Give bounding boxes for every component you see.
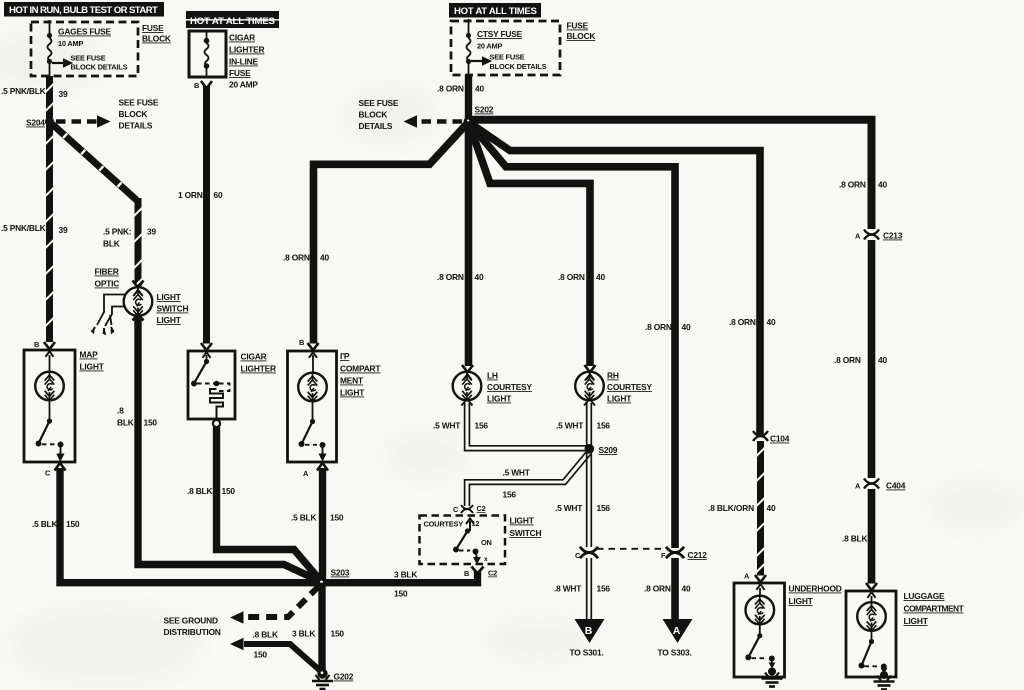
pin B map light xyxy=(34,340,55,372)
svg-text:TO S301.: TO S301. xyxy=(570,648,604,658)
wire S202 to RH courtesy light xyxy=(469,122,591,366)
fuse CTSY FUSE 20 AMP xyxy=(466,19,471,75)
svg-text:.8 ORN: .8 ORN xyxy=(729,317,756,327)
see fuse block details arrow (inside gages box) xyxy=(52,54,128,72)
wire .5 PNK/BLK diagonal S204 to light switch light xyxy=(52,124,137,200)
pin C map light xyxy=(45,454,66,478)
label .8 ORN 40 (luggage wire lower) xyxy=(834,355,887,365)
label .5 BLK 150 (I/P) xyxy=(291,513,344,523)
wire .5 BLK 150 I/P light to S203 xyxy=(319,468,326,580)
banner HOT AT ALL TIMES (left) xyxy=(178,11,286,28)
wire S202 to LH courtesy light xyxy=(465,122,473,367)
svg-text:B: B xyxy=(585,625,593,637)
svg-text:COURTESY: COURTESY xyxy=(487,382,533,392)
svg-text:CIGAR: CIGAR xyxy=(229,33,255,43)
label .8 WHT 156 xyxy=(554,584,610,594)
svg-text:CIGAR: CIGAR xyxy=(241,352,267,362)
I/P compartment light box xyxy=(288,351,337,462)
label UNDERHOOD LIGHT xyxy=(789,584,842,607)
svg-text:150: 150 xyxy=(331,629,345,639)
svg-text:.5 BLK: .5 BLK xyxy=(291,513,316,523)
svg-text:156: 156 xyxy=(597,503,611,513)
svg-text:40: 40 xyxy=(596,272,605,282)
svg-text:20 AMP: 20 AMP xyxy=(229,80,258,90)
label .8 ORN 40 (below F) xyxy=(644,584,691,594)
svg-text:40: 40 xyxy=(475,84,484,94)
svg-text:.5 PNK/BLK: .5 PNK/BLK xyxy=(1,223,46,233)
wire S202 to I/P compartment light xyxy=(314,122,469,344)
label CTSY FUSE 20 AMP xyxy=(477,29,523,51)
label .8 BLK 150 (cigar) xyxy=(187,486,235,496)
switch underhood light xyxy=(745,625,775,662)
svg-text:12: 12 xyxy=(472,519,480,528)
dashed arrow see fuse block details (left from S202) xyxy=(359,98,463,131)
svg-text:C: C xyxy=(45,469,51,478)
label .8 ORN 40 (luggage wire upper) xyxy=(839,180,887,190)
svg-text:LH: LH xyxy=(487,371,498,381)
lamp luggage light xyxy=(857,602,886,631)
label .5 WHT 156 (LH) xyxy=(433,421,488,431)
pin B I/P light xyxy=(299,338,319,373)
wire .8 WHT connector C to triangle B (white double line) xyxy=(587,558,592,620)
wire 1 ORN 60 down to cigar lighter xyxy=(203,86,210,344)
svg-text:IN-LINE: IN-LINE xyxy=(229,57,258,67)
svg-text:3 BLK: 3 BLK xyxy=(292,629,315,639)
svg-text:C2: C2 xyxy=(488,569,497,578)
svg-text:SEE FUSE: SEE FUSE xyxy=(490,53,525,62)
svg-text:.8 ORN: .8 ORN xyxy=(834,355,861,365)
svg-text:MAP: MAP xyxy=(80,350,99,360)
label .8 ORN 40 (underhood wire) xyxy=(729,317,776,327)
svg-text:.8 BLK/ORN: .8 BLK/ORN xyxy=(708,503,754,513)
wire .5 WHT LH courtesy to S209 (white double line) xyxy=(465,403,588,451)
svg-text:FUSE: FUSE xyxy=(567,21,589,31)
wire .8 BLK 150 from light switch light to S203 xyxy=(138,316,319,581)
svg-text:LIGHT: LIGHT xyxy=(80,362,105,372)
svg-text:COURTESY: COURTESY xyxy=(607,382,653,392)
dashed arrow see fuse block details xyxy=(56,98,159,131)
label .5 WHT 156 (down) xyxy=(555,503,610,513)
svg-text:FUSE: FUSE xyxy=(229,68,251,78)
label CIGAR LIGHTER xyxy=(241,352,277,374)
label 1 ORN 60 xyxy=(178,190,223,200)
svg-text:B: B xyxy=(194,81,199,90)
banner HOT IN RUN, BULB TEST OR START xyxy=(4,2,164,17)
wire .8 ORN 40 fuse to S202 xyxy=(465,75,472,121)
wire S202 to luggage compartment (right top) xyxy=(470,120,872,229)
svg-text:LIGHT: LIGHT xyxy=(607,394,632,404)
svg-text:156: 156 xyxy=(597,421,611,431)
svg-text:39: 39 xyxy=(59,89,68,99)
label 3 BLK 150 (vertical) xyxy=(292,629,344,639)
wire 3 BLK 150 S203 to G202 xyxy=(318,583,325,672)
svg-text:40: 40 xyxy=(320,253,329,263)
svg-text:A: A xyxy=(303,469,309,478)
svg-text:.8 ORN: .8 ORN xyxy=(558,272,585,282)
svg-text:.8 BLK: .8 BLK xyxy=(253,630,278,640)
splice S209 xyxy=(585,444,618,455)
switch map light xyxy=(36,401,65,462)
svg-text:BLOCK DETAILS: BLOCK DETAILS xyxy=(71,63,128,72)
label .8 ORN 40 (LH wire) xyxy=(437,272,484,282)
svg-text:S202: S202 xyxy=(475,105,494,115)
switch I/P light xyxy=(299,402,327,462)
ground at luggage light xyxy=(874,667,895,690)
svg-text:3 BLK: 3 BLK xyxy=(394,570,417,580)
svg-text:.8 BLK: .8 BLK xyxy=(187,486,212,496)
label LIGHT SWITCH xyxy=(510,516,542,539)
svg-text:COMPARTMENT: COMPARTMENT xyxy=(904,604,965,614)
svg-text:SEE GROUND: SEE GROUND xyxy=(164,616,218,626)
wire connector F to triangle A xyxy=(671,558,679,620)
svg-text:.8: .8 xyxy=(117,406,124,416)
label .8 ORN 40 (I/P wire) xyxy=(283,253,329,263)
svg-text:LUGGAGE: LUGGAGE xyxy=(904,591,946,601)
label FUSE BLOCK xyxy=(142,23,171,44)
svg-text:HOT AT ALL TIMES: HOT AT ALL TIMES xyxy=(454,6,538,17)
fuse element in-line xyxy=(204,31,210,77)
svg-text:C: C xyxy=(575,551,581,560)
label .8 ORN 40 (top) xyxy=(437,84,484,94)
lamp underhood light xyxy=(746,596,775,625)
wire .5 WHT S209 to light switch C (white double line) xyxy=(465,452,591,507)
svg-text:GAGES FUSE: GAGES FUSE xyxy=(58,27,112,37)
label MAP LIGHT xyxy=(80,350,105,372)
fuse block (gages) dashed box xyxy=(31,22,138,76)
label 3 BLK 150 (horizontal) xyxy=(394,570,417,599)
label .8 BLK 150 xyxy=(117,406,157,428)
pin B of in-line fuse xyxy=(194,81,212,90)
svg-text:40: 40 xyxy=(682,322,691,332)
svg-text:I'P: I'P xyxy=(340,351,350,361)
pin luggage light xyxy=(866,583,877,603)
label .8 ORN 40 (S303 wire) xyxy=(645,322,691,332)
label LUGGAGE COMPARTMENT LIGHT xyxy=(904,591,965,626)
fiber optic lines xyxy=(91,295,126,336)
svg-text:LIGHTER: LIGHTER xyxy=(229,45,265,55)
svg-text:LIGHT: LIGHT xyxy=(487,394,512,404)
svg-text:S209: S209 xyxy=(599,445,618,455)
svg-text:COURTESY: COURTESY xyxy=(424,520,464,529)
svg-text:RH: RH xyxy=(607,371,619,381)
svg-text:40: 40 xyxy=(767,503,776,513)
fuse block (ctsy) dashed box xyxy=(451,21,560,75)
svg-text:40: 40 xyxy=(767,317,776,327)
svg-text:C404: C404 xyxy=(886,481,906,491)
splice S204 xyxy=(26,117,54,128)
svg-text:LIGHT: LIGHT xyxy=(157,315,182,325)
light switch dashed box xyxy=(420,516,506,565)
svg-text:150: 150 xyxy=(144,418,158,428)
svg-text:39: 39 xyxy=(59,225,68,235)
svg-text:.8 ORN: .8 ORN xyxy=(437,84,464,94)
label FUSE BLOCK (center) xyxy=(567,21,596,42)
svg-text:UNDERHOOD: UNDERHOOD xyxy=(789,584,842,594)
svg-text:COMPART: COMPART xyxy=(340,364,381,374)
svg-text:B: B xyxy=(34,340,39,349)
ground G202 xyxy=(312,668,354,689)
svg-text:SWITCH: SWITCH xyxy=(157,304,189,314)
svg-text:156: 156 xyxy=(503,490,517,500)
cigar lighter box xyxy=(188,351,235,419)
svg-text:LIGHT: LIGHT xyxy=(157,292,182,302)
connector C104 xyxy=(753,431,790,444)
wire S202 to underhood light xyxy=(469,122,761,436)
svg-text:OPTIC: OPTIC xyxy=(95,279,120,289)
fuse GAGES FUSE 10 AMP xyxy=(47,20,52,76)
svg-text:A: A xyxy=(855,232,861,241)
svg-text:40: 40 xyxy=(475,272,484,282)
wire .5 WHT RH courtesy to S209 (white double line) xyxy=(587,403,592,446)
svg-text:B: B xyxy=(299,338,304,347)
wire .8 BLK 150 cigar lighter to S203 xyxy=(217,427,321,580)
svg-text:156: 156 xyxy=(597,584,611,594)
label GAGES FUSE 10 AMP xyxy=(58,27,112,49)
svg-text:40: 40 xyxy=(682,584,691,594)
map light box xyxy=(24,350,75,462)
svg-text:A: A xyxy=(855,482,861,491)
pin C C2 (light switch top) xyxy=(453,504,486,514)
svg-text:LIGHT: LIGHT xyxy=(789,596,814,606)
label I'P COMPARTMENT LIGHT xyxy=(340,351,381,398)
connector A C404 xyxy=(855,479,906,491)
svg-text:BLOCK: BLOCK xyxy=(567,31,596,41)
svg-text:BLOCK: BLOCK xyxy=(359,110,388,120)
svg-text:B: B xyxy=(464,569,469,578)
connector A C213 xyxy=(855,230,903,241)
svg-text:x: x xyxy=(484,556,488,563)
svg-text:LIGHT: LIGHT xyxy=(904,616,929,626)
label SEE GROUND DISTRIBUTION xyxy=(164,616,221,638)
svg-text:40: 40 xyxy=(878,180,887,190)
svg-text:BLK: BLK xyxy=(103,239,120,249)
wire .5 WHT S209 down to connector C (white double line) xyxy=(587,452,592,547)
dashed wire S203 to ground distribution xyxy=(230,587,319,624)
connector F C212 xyxy=(661,547,707,560)
svg-text:A: A xyxy=(673,625,681,637)
cigar lighter in-line fuse box xyxy=(189,31,226,77)
svg-text:MENT: MENT xyxy=(340,376,364,386)
svg-text:10 AMP: 10 AMP xyxy=(58,39,83,48)
ground at underhood light xyxy=(762,659,783,687)
lamp I/P light xyxy=(298,373,327,402)
wire C213 to C404 xyxy=(868,240,876,478)
pin A I/P light xyxy=(303,454,328,478)
svg-text:150: 150 xyxy=(394,589,408,599)
svg-text:SEE FUSE: SEE FUSE xyxy=(71,54,106,63)
svg-text:CTSY FUSE: CTSY FUSE xyxy=(477,29,523,39)
dashed connector line C212 xyxy=(597,548,666,550)
svg-text:150: 150 xyxy=(254,650,268,660)
svg-text:BLOCK DETAILS: BLOCK DETAILS xyxy=(490,62,547,71)
see fuse block details arrow (inside ctsy box) xyxy=(471,53,547,72)
wire .5 PNK/BLK S204 to map light B xyxy=(46,125,53,342)
triangle B to S301 xyxy=(570,619,605,658)
svg-text:.5 WHT: .5 WHT xyxy=(556,421,584,431)
label .5 WHT 156 (switch feed) xyxy=(503,468,531,500)
label LH COURTESY LIGHT xyxy=(487,371,533,404)
svg-text:ON: ON xyxy=(481,538,492,547)
svg-text:G202: G202 xyxy=(334,672,354,682)
svg-text:F: F xyxy=(661,551,666,560)
label .5 PNK/BLK 39 (upper) xyxy=(1,86,68,99)
cigar lighter internals xyxy=(191,343,230,427)
svg-text:HOT AT ALL TIMES: HOT AT ALL TIMES xyxy=(190,16,276,27)
label CIGAR LIGHTER IN-LINE FUSE 20 AMP xyxy=(229,33,265,90)
svg-text:150: 150 xyxy=(330,513,344,523)
wire .5 BLK 150 map light to S203 xyxy=(60,468,318,583)
svg-text:.5 WHT: .5 WHT xyxy=(555,503,583,513)
svg-text:BLOCK: BLOCK xyxy=(142,34,171,44)
wire .5 PNK/BLK vertical to light switch light xyxy=(135,198,142,288)
svg-text:TO S303.: TO S303. xyxy=(658,648,692,658)
svg-text:DETAILS: DETAILS xyxy=(119,121,153,131)
svg-text:39: 39 xyxy=(147,227,156,237)
svg-text:1 ORN: 1 ORN xyxy=(178,190,203,200)
wire .8 BLK 150 ground distribution branch xyxy=(230,638,320,671)
svg-text:60: 60 xyxy=(214,190,223,200)
svg-text:.5 PNK/BLK: .5 PNK/BLK xyxy=(1,86,46,96)
switch luggage light xyxy=(859,631,887,670)
svg-text:HOT IN RUN, BULB TEST OR START: HOT IN RUN, BULB TEST OR START xyxy=(9,5,158,16)
label .8 BLK/ORN 40 xyxy=(708,503,776,513)
svg-text:DETAILS: DETAILS xyxy=(359,121,393,131)
label .5 PNK/BLK 39 (lower) xyxy=(1,223,68,235)
label LIGHT SWITCH LIGHT xyxy=(157,292,189,325)
svg-text:.5 WHT: .5 WHT xyxy=(503,468,531,478)
svg-text:C213: C213 xyxy=(883,231,903,241)
LH courtesy light xyxy=(453,365,482,406)
triangle A to S303 xyxy=(658,619,693,658)
svg-text:FUSE: FUSE xyxy=(142,23,164,33)
svg-text:LIGHT: LIGHT xyxy=(510,516,535,526)
svg-text:SWITCH: SWITCH xyxy=(510,528,542,538)
label RH COURTESY LIGHT xyxy=(607,371,653,404)
svg-text:DISTRIBUTION: DISTRIBUTION xyxy=(164,627,221,637)
svg-text:LIGHTER: LIGHTER xyxy=(241,364,277,374)
light switch internals xyxy=(424,519,492,565)
svg-text:150: 150 xyxy=(66,519,80,529)
svg-text:C104: C104 xyxy=(770,434,790,444)
underhood light box xyxy=(734,583,785,677)
lamp map light xyxy=(35,372,64,401)
wire S202 to connector A / S303 xyxy=(469,122,676,548)
svg-text:.8 ORN: .8 ORN xyxy=(283,253,310,263)
splice S202 xyxy=(464,105,494,127)
wire .8 BLK/ORN 40 C104 to underhood light xyxy=(757,441,764,576)
label .8 ORN 40 (RH wire) xyxy=(558,272,605,282)
svg-text:.5 PNK:: .5 PNK: xyxy=(103,227,131,237)
banner HOT AT ALL TIMES (center) xyxy=(449,3,541,18)
svg-text:.8 ORN: .8 ORN xyxy=(645,322,672,332)
svg-text:S204: S204 xyxy=(26,118,45,128)
pin B C2 (light switch bottom) xyxy=(464,567,497,579)
svg-text:SEE FUSE: SEE FUSE xyxy=(119,98,159,108)
svg-text:A: A xyxy=(744,572,750,581)
connector C (to S301) xyxy=(575,547,598,560)
wire 3 BLK 150 S203 to light switch B xyxy=(322,571,478,583)
svg-text:156: 156 xyxy=(475,421,489,431)
svg-text:.8 ORN: .8 ORN xyxy=(839,180,866,190)
svg-text:C212: C212 xyxy=(688,550,708,560)
svg-text:20 AMP: 20 AMP xyxy=(477,42,502,51)
svg-text:.8 ORN: .8 ORN xyxy=(437,272,464,282)
svg-text:.8 WHT: .8 WHT xyxy=(554,584,582,594)
wire .8 BLK C404 to luggage light xyxy=(868,489,876,584)
label .5 WHT 156 (RH) xyxy=(556,421,610,431)
svg-text:C2: C2 xyxy=(477,504,486,513)
svg-text:40: 40 xyxy=(878,355,887,365)
light switch light xyxy=(124,281,153,321)
label .5 BLK 150 xyxy=(32,519,80,529)
svg-text:S203: S203 xyxy=(331,568,350,578)
label .8 BLK 150 (branch) xyxy=(253,630,278,660)
svg-text:150: 150 xyxy=(222,486,236,496)
label .5 PNK:/BLK 39 xyxy=(103,227,156,249)
svg-text:BLOCK: BLOCK xyxy=(119,109,148,119)
svg-text:C: C xyxy=(453,505,459,514)
svg-text:.5 BLK: .5 BLK xyxy=(32,519,57,529)
svg-text:.5 WHT: .5 WHT xyxy=(433,421,461,431)
pin A underhood xyxy=(744,572,766,597)
svg-text:SEE FUSE: SEE FUSE xyxy=(359,98,399,108)
svg-text:.8 ORN: .8 ORN xyxy=(644,584,671,594)
label FIBER OPTIC xyxy=(95,267,120,289)
svg-text:.8 BLK: .8 BLK xyxy=(842,534,867,544)
RH courtesy light xyxy=(575,365,604,406)
splice S203 xyxy=(317,568,350,588)
luggage compartment light box xyxy=(846,591,896,677)
svg-text:FIBER: FIBER xyxy=(95,267,119,277)
svg-text:BLK: BLK xyxy=(117,418,134,428)
svg-text:LIGHT: LIGHT xyxy=(340,388,365,398)
wire .5 PNK/BLK from fuse to S204 xyxy=(46,76,53,118)
